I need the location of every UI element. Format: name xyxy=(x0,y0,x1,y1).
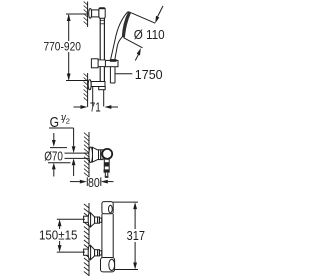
svg-text:317: 317 xyxy=(127,228,145,243)
svg-text:1750: 1750 xyxy=(135,67,163,82)
svg-text:G: G xyxy=(50,115,59,131)
svg-text:71: 71 xyxy=(90,100,101,115)
svg-text:80: 80 xyxy=(88,175,100,190)
svg-text:150±15: 150±15 xyxy=(39,228,78,242)
svg-text:Ø 110: Ø 110 xyxy=(134,27,165,42)
svg-text:770-920: 770-920 xyxy=(43,40,81,54)
svg-text:Ø70: Ø70 xyxy=(44,148,63,163)
svg-text:2: 2 xyxy=(66,117,70,126)
